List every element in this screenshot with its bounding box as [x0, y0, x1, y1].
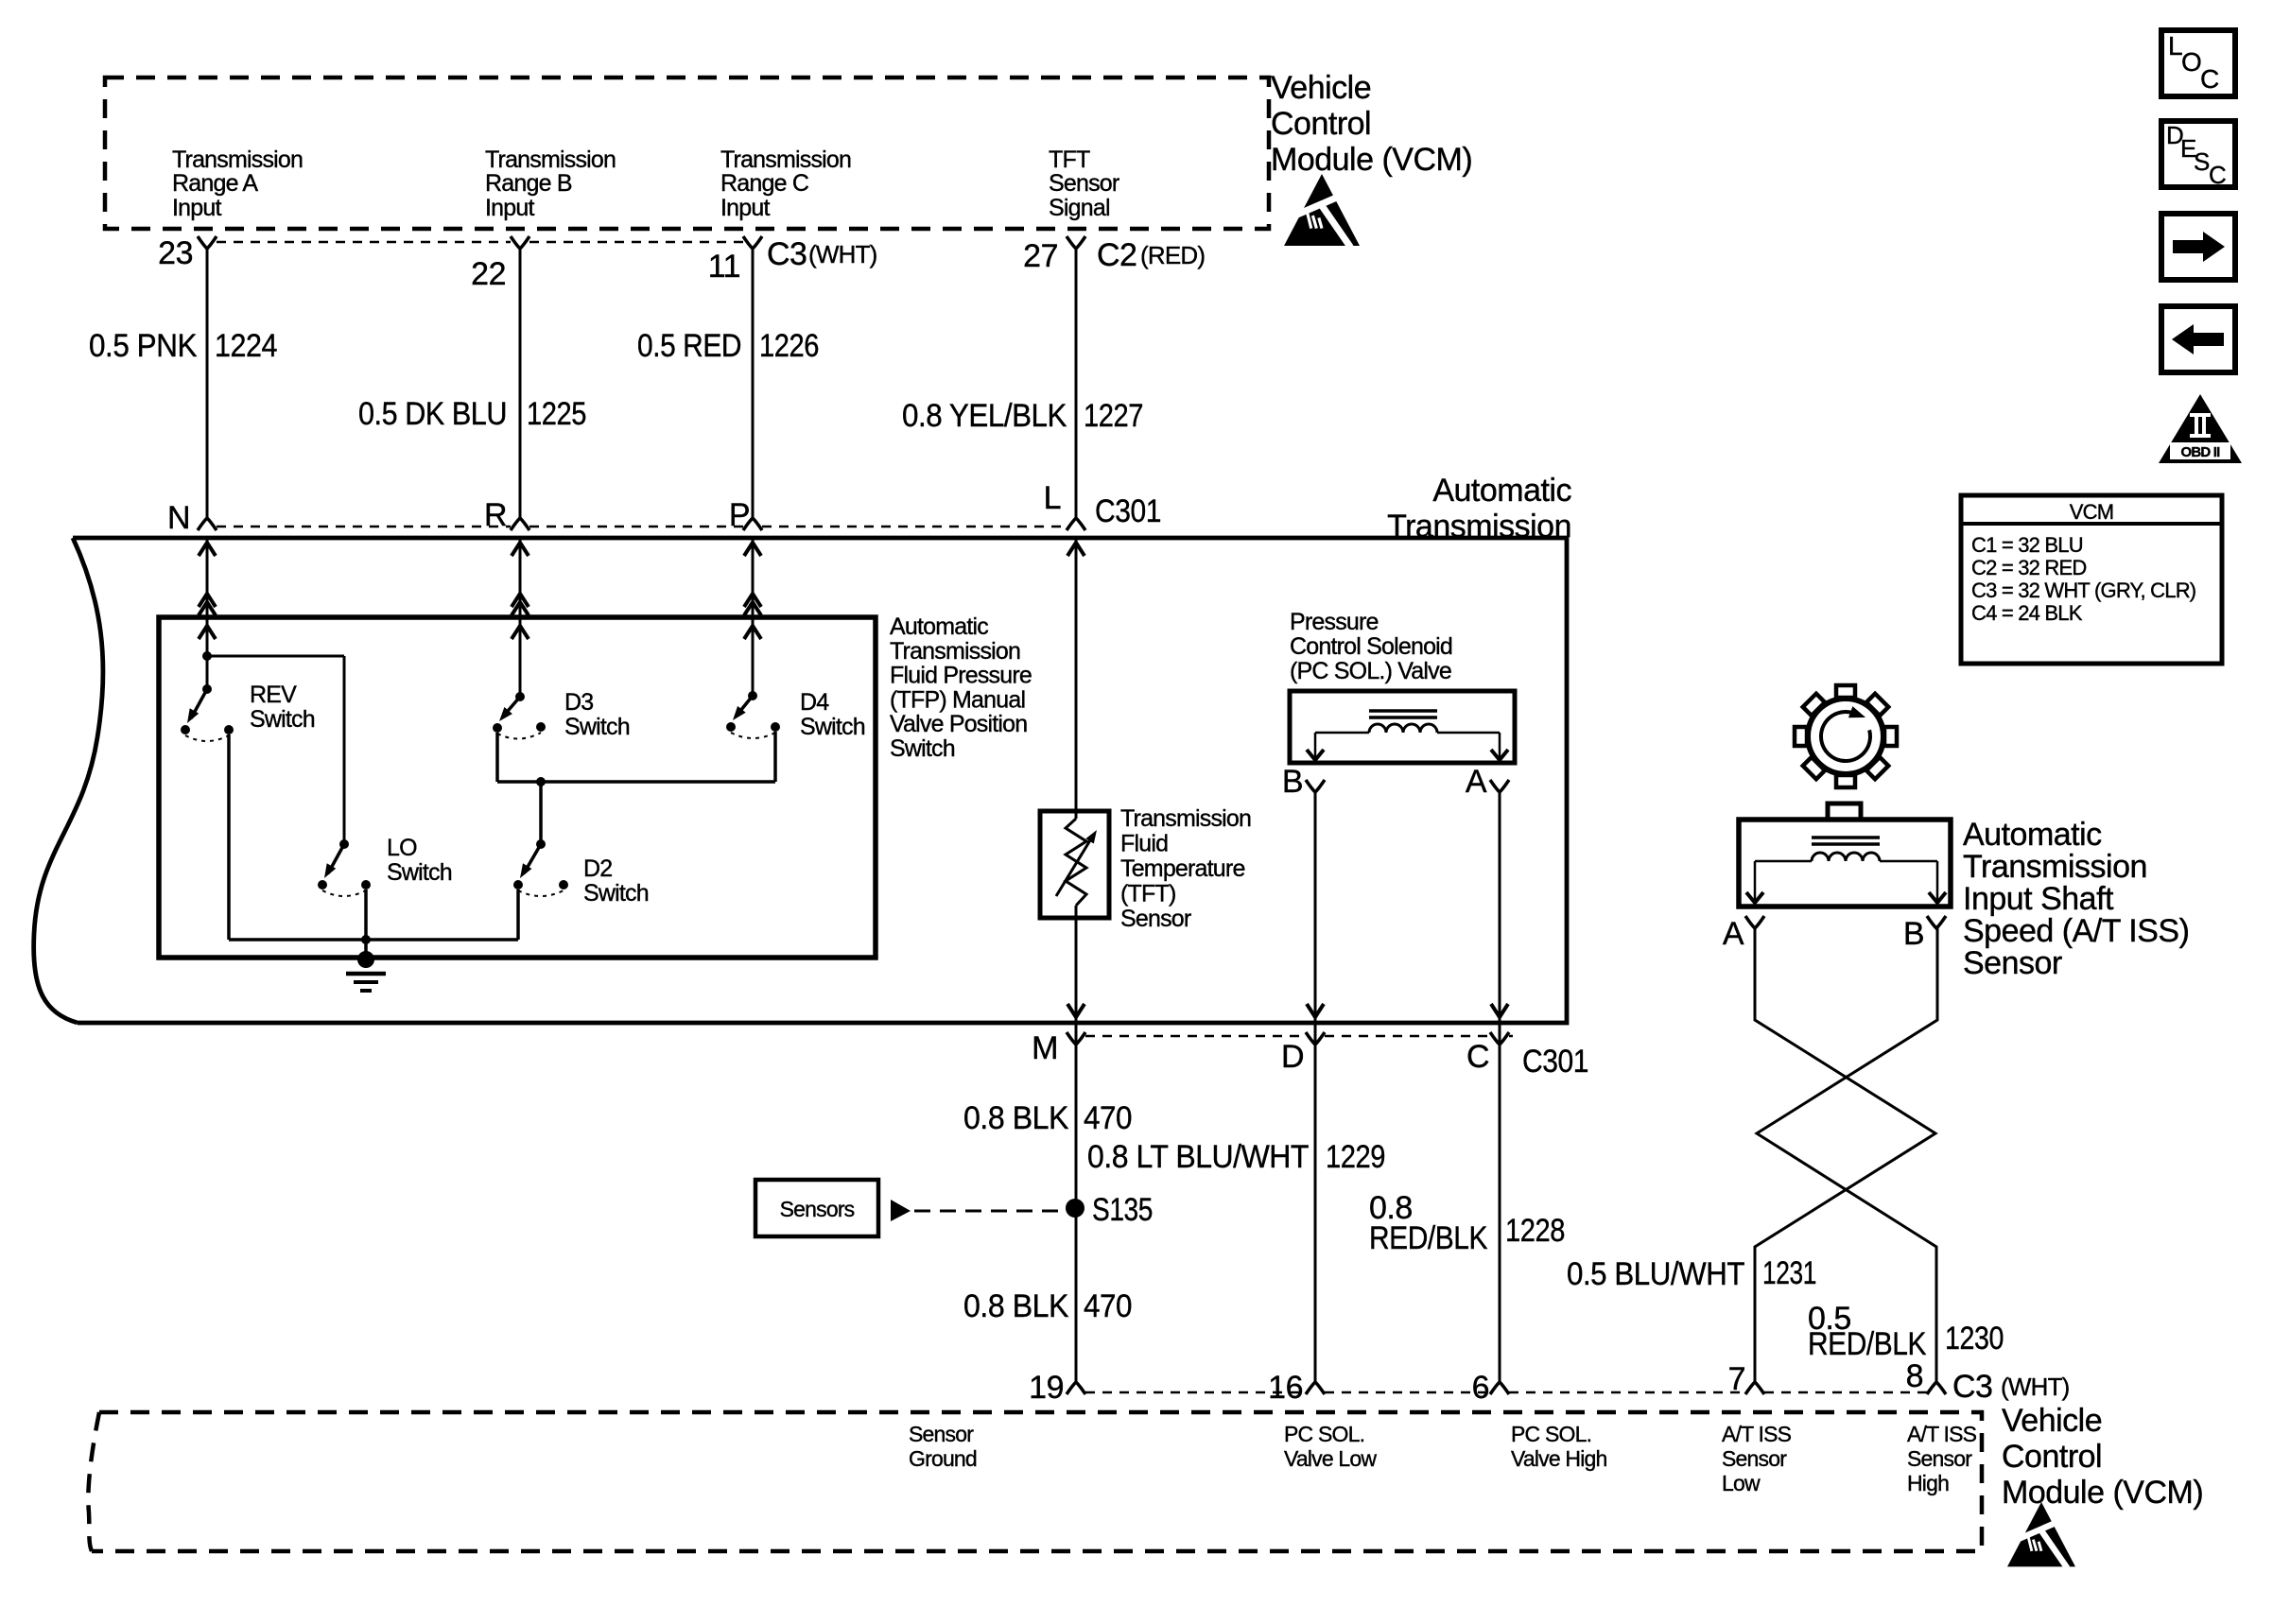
svg-text:Automatic: Automatic [1432, 473, 1571, 509]
svg-text:C3: C3 [767, 236, 807, 272]
svg-text:Switch: Switch [564, 714, 630, 740]
svg-text:6: 6 [1472, 1370, 1489, 1406]
svg-text:C301: C301 [1095, 493, 1161, 529]
svg-text:(PC SOL.) Valve: (PC SOL.) Valve [1290, 658, 1451, 684]
svg-text:1226: 1226 [759, 328, 819, 364]
svg-text:Control Solenoid: Control Solenoid [1290, 633, 1452, 660]
svg-text:Automatic: Automatic [1963, 817, 2102, 853]
svg-text:C3: C3 [1952, 1369, 1992, 1405]
svg-text:C3 = 32 WHT (GRY, CLR): C3 = 32 WHT (GRY, CLR) [1971, 579, 2195, 602]
svg-text:(WHT): (WHT) [808, 240, 877, 268]
svg-text:OBD II: OBD II [2180, 444, 2220, 460]
svg-text:11: 11 [708, 249, 740, 285]
svg-text:1227: 1227 [1084, 398, 1143, 434]
svg-text:Transmission: Transmission [1120, 805, 1251, 832]
svg-text:Input: Input [720, 195, 770, 221]
svg-text:S: S [2194, 147, 2210, 176]
svg-text:Switch: Switch [800, 714, 865, 740]
svg-text:C2 = 32 RED: C2 = 32 RED [1971, 556, 2086, 579]
svg-text:Range A: Range A [172, 170, 258, 197]
svg-text:High: High [1907, 1471, 1949, 1495]
svg-text:C1 = 32 BLU: C1 = 32 BLU [1971, 533, 2083, 557]
svg-text:(TFT): (TFT) [1120, 881, 1175, 907]
svg-text:Sensor: Sensor [909, 1422, 974, 1446]
svg-text:1231: 1231 [1762, 1255, 1816, 1291]
svg-text:Temperature: Temperature [1120, 855, 1245, 882]
svg-text:1224: 1224 [215, 328, 277, 364]
svg-text:VCM: VCM [2070, 500, 2114, 524]
svg-text:D: D [1281, 1039, 1304, 1075]
svg-text:A/T ISS: A/T ISS [1907, 1422, 1977, 1446]
svg-text:Transmission: Transmission [485, 147, 616, 173]
svg-text:LO: LO [387, 835, 417, 861]
svg-text:Transmission: Transmission [720, 147, 851, 173]
svg-text:RED/BLK: RED/BLK [1808, 1326, 1927, 1362]
svg-text:Switch: Switch [890, 735, 955, 762]
svg-text:Range B: Range B [485, 170, 572, 197]
svg-text:0.8 BLK: 0.8 BLK [963, 1288, 1069, 1324]
svg-text:Ground: Ground [909, 1446, 977, 1471]
svg-text:Switch: Switch [250, 706, 315, 733]
svg-text:Transmission: Transmission [1387, 509, 1571, 544]
svg-text:1229: 1229 [1326, 1139, 1385, 1175]
svg-text:S135: S135 [1092, 1192, 1153, 1228]
svg-text:0.8 BLK: 0.8 BLK [963, 1100, 1069, 1136]
svg-text:Transmission: Transmission [890, 638, 1020, 665]
svg-text:Switch: Switch [387, 859, 452, 886]
svg-text:PC SOL.: PC SOL. [1284, 1422, 1364, 1446]
svg-text:C: C [2209, 161, 2226, 189]
svg-text:23: 23 [158, 235, 193, 271]
svg-text:7: 7 [1728, 1361, 1745, 1397]
svg-text:TFT: TFT [1049, 147, 1090, 173]
svg-text:1228: 1228 [1505, 1213, 1565, 1249]
svg-text:1230: 1230 [1945, 1321, 2004, 1356]
svg-text:Input: Input [172, 195, 221, 221]
svg-text:Vehicle: Vehicle [2002, 1403, 2102, 1439]
svg-text:C301: C301 [1522, 1044, 1588, 1080]
svg-text:0.5 PNK: 0.5 PNK [89, 328, 198, 364]
svg-text:Fluid Pressure: Fluid Pressure [890, 663, 1032, 689]
svg-text:Module (VCM): Module (VCM) [2002, 1475, 2203, 1511]
svg-text:Vehicle: Vehicle [1271, 70, 1371, 106]
svg-text:Valve High: Valve High [1511, 1446, 1607, 1471]
svg-text:Sensor: Sensor [1120, 906, 1191, 932]
svg-text:0.8 LT BLU/WHT: 0.8 LT BLU/WHT [1087, 1139, 1309, 1175]
svg-text:0.5 DK BLU: 0.5 DK BLU [358, 396, 507, 432]
svg-text:Valve Position: Valve Position [890, 711, 1027, 737]
svg-text:Valve Low: Valve Low [1284, 1446, 1377, 1471]
svg-text:0.8 YEL/BLK: 0.8 YEL/BLK [902, 398, 1067, 434]
svg-text:N: N [167, 500, 190, 536]
svg-text:C2: C2 [1097, 237, 1136, 273]
svg-text:PC SOL.: PC SOL. [1511, 1422, 1591, 1446]
svg-text:Speed (A/T ISS): Speed (A/T ISS) [1963, 913, 2189, 949]
svg-text:470: 470 [1084, 1100, 1132, 1136]
svg-text:22: 22 [471, 256, 506, 292]
svg-text:1225: 1225 [527, 396, 586, 432]
svg-text:19: 19 [1029, 1370, 1064, 1406]
svg-text:Automatic: Automatic [890, 613, 988, 640]
svg-text:B: B [1903, 916, 1924, 952]
svg-text:Module (VCM): Module (VCM) [1271, 142, 1472, 178]
svg-text:Pressure: Pressure [1290, 609, 1379, 635]
svg-text:C4 = 24 BLK: C4 = 24 BLK [1971, 601, 2083, 625]
svg-text:D2: D2 [583, 855, 612, 882]
svg-text:D3: D3 [564, 689, 593, 716]
svg-text:A: A [1723, 916, 1744, 952]
svg-text:R: R [484, 497, 507, 533]
svg-text:8: 8 [1906, 1358, 1923, 1394]
svg-text:B: B [1282, 764, 1303, 800]
svg-text:D4: D4 [800, 689, 829, 716]
svg-text:Low: Low [1722, 1471, 1761, 1495]
svg-text:Input: Input [485, 195, 534, 221]
svg-text:Control: Control [1271, 106, 1371, 142]
svg-text:Sensor: Sensor [1907, 1446, 1972, 1471]
svg-text:Range C: Range C [720, 170, 809, 197]
svg-text:Transmission: Transmission [1963, 849, 2147, 885]
svg-text:16: 16 [1268, 1370, 1303, 1406]
svg-text:L: L [1044, 480, 1061, 516]
svg-text:(TFP) Manual: (TFP) Manual [890, 686, 1025, 713]
svg-text:0.5 BLU/WHT: 0.5 BLU/WHT [1567, 1256, 1744, 1292]
svg-text:L: L [2168, 31, 2182, 60]
svg-text:27: 27 [1023, 238, 1058, 274]
svg-text:M: M [1032, 1030, 1058, 1066]
svg-text:470: 470 [1084, 1288, 1132, 1324]
svg-text:A: A [1466, 764, 1487, 800]
svg-text:Sensor: Sensor [1722, 1446, 1787, 1471]
svg-text:Sensor: Sensor [1963, 945, 2062, 981]
svg-text:0.5 RED: 0.5 RED [637, 328, 741, 364]
svg-text:Signal: Signal [1049, 195, 1110, 221]
svg-text:(WHT): (WHT) [2001, 1373, 2070, 1401]
svg-text:(RED): (RED) [1140, 241, 1205, 269]
svg-text:REV: REV [250, 682, 297, 708]
svg-text:O: O [2181, 47, 2201, 77]
svg-text:Sensor: Sensor [1049, 170, 1119, 197]
svg-text:C: C [1466, 1039, 1489, 1075]
svg-text:Transmission: Transmission [172, 147, 303, 173]
svg-text:P: P [729, 497, 750, 533]
svg-text:RED/BLK: RED/BLK [1369, 1220, 1488, 1256]
svg-text:A/T ISS: A/T ISS [1722, 1422, 1792, 1446]
svg-text:Control: Control [2002, 1439, 2102, 1475]
svg-text:Input Shaft: Input Shaft [1963, 881, 2114, 917]
svg-text:C: C [2200, 64, 2219, 94]
svg-text:Sensors: Sensors [780, 1197, 855, 1221]
svg-text:Switch: Switch [583, 880, 649, 907]
svg-text:Fluid: Fluid [1120, 831, 1168, 857]
